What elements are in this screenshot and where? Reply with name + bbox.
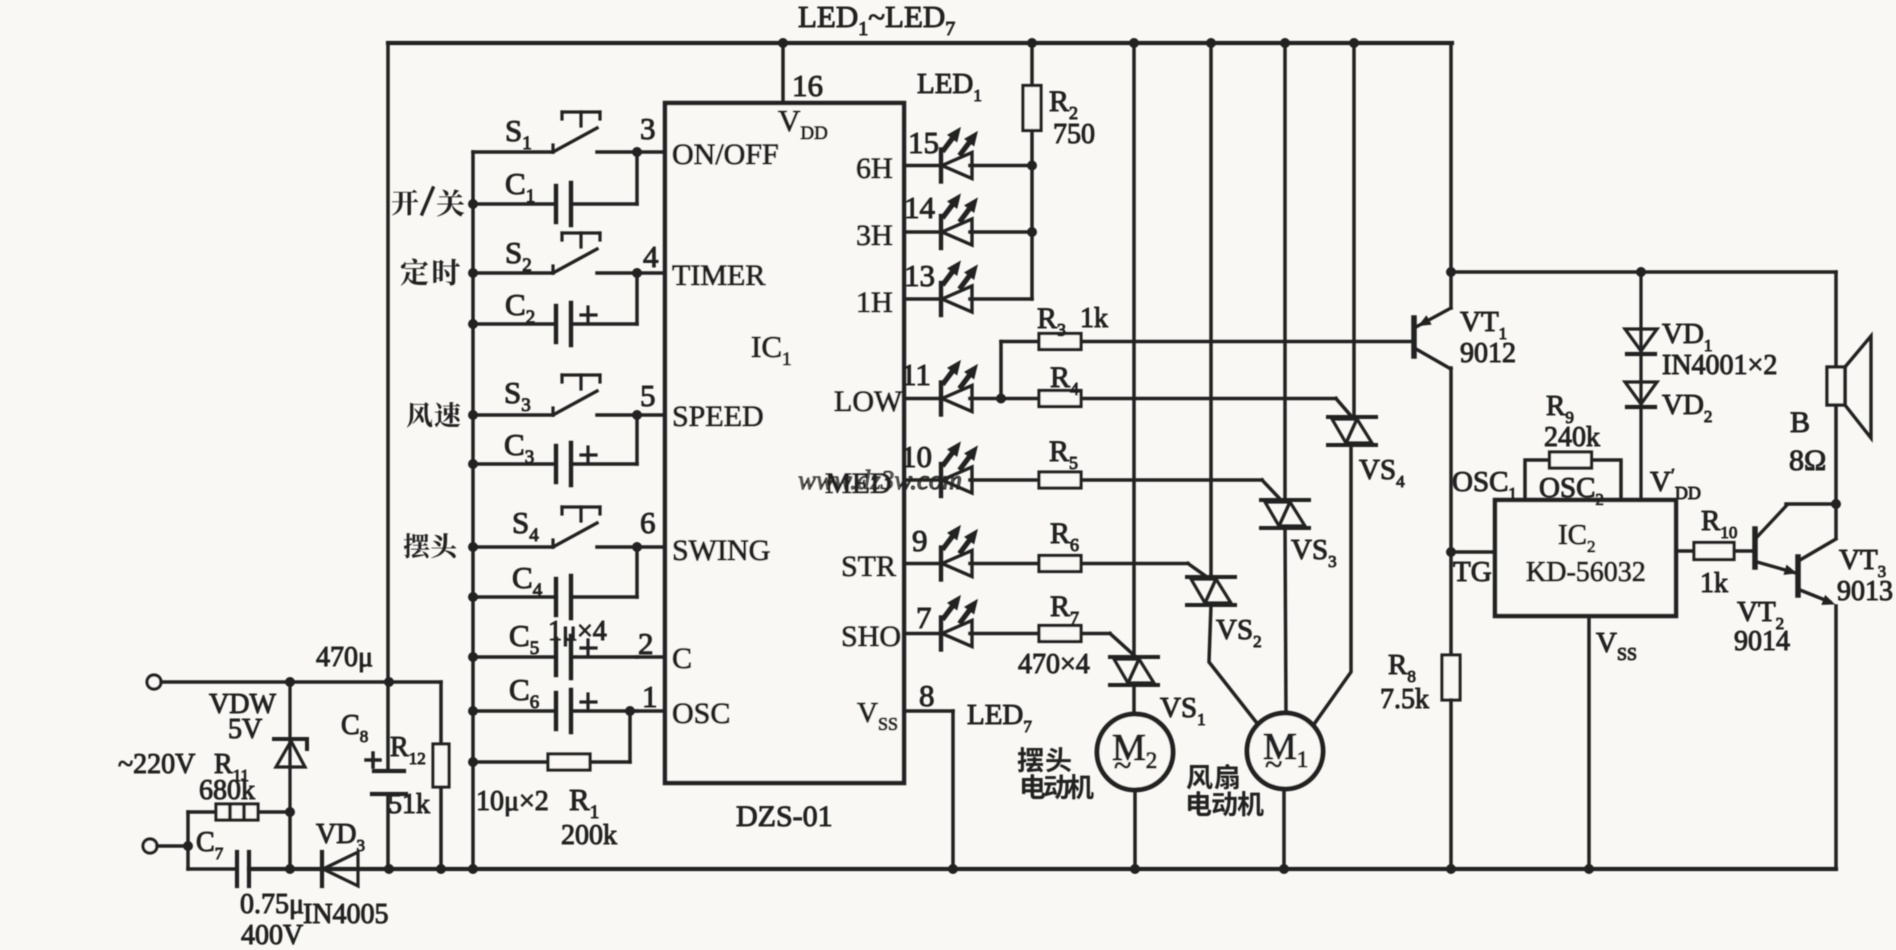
svg-text:SHO: SHO <box>841 620 901 653</box>
switch S2 <box>473 233 637 273</box>
wire VS2 to M1 <box>1209 605 1260 727</box>
LED LED5 (MED) <box>941 442 977 496</box>
svg-text:SWING: SWING <box>672 534 770 567</box>
wire VT3 emitter to ground <box>1834 606 1838 869</box>
svg-text:6H: 6H <box>856 152 893 185</box>
svg-text:8: 8 <box>919 678 935 713</box>
wire pin11 row <box>904 397 941 401</box>
svg-text:400V: 400V <box>241 920 303 950</box>
svg-text:OSC1: OSC1 <box>1452 466 1517 503</box>
wire pin10 row <box>904 478 941 482</box>
wire VDW to ground <box>288 812 292 869</box>
node pin3 <box>632 147 642 157</box>
svg-text:2: 2 <box>638 626 654 661</box>
node TG junction <box>1446 547 1456 557</box>
wire pin6 riser <box>635 547 639 597</box>
svg-text:3: 3 <box>640 111 656 146</box>
wire C8 branch lower <box>386 794 390 869</box>
triac VS3 <box>1261 500 1309 528</box>
node VDW top <box>285 677 295 687</box>
node 6H-R2 <box>1027 161 1037 171</box>
svg-text:~: ~ <box>1114 747 1131 783</box>
node VT1 emitter junction <box>1446 267 1456 277</box>
node M1 ground <box>1279 864 1289 874</box>
wire bottom ground rail <box>249 867 1836 871</box>
wire lower terminal lead <box>157 844 188 848</box>
svg-text:680k: 680k <box>199 775 255 806</box>
resistor R3 <box>1039 334 1081 350</box>
label fengsu <box>407 402 433 427</box>
node C6 bus <box>468 706 478 716</box>
LED LED7 (SHO) <box>941 596 977 650</box>
wire pin9 row <box>904 562 941 566</box>
wire pin2 lead <box>637 655 665 659</box>
node LOW junction <box>996 394 1006 404</box>
label baitou <box>404 533 430 558</box>
label baitou motor <box>1018 747 1044 772</box>
terminal AC input bottom <box>143 839 157 853</box>
node pin5 <box>632 410 642 420</box>
wire VDD pin16 lead <box>781 43 785 103</box>
triac VS2 <box>1187 577 1235 605</box>
svg-text:5: 5 <box>640 378 656 413</box>
wire VS2 column <box>1209 43 1213 577</box>
svg-text:10μ×2: 10μ×2 <box>476 786 549 817</box>
wire VT2 collector <box>1786 502 1836 506</box>
wire IC2 VSS <box>1587 616 1591 869</box>
wire VS1 column <box>1132 43 1136 657</box>
resistor R12 <box>433 744 449 787</box>
svg-text:1: 1 <box>642 679 658 714</box>
wire pin1 lead <box>637 709 665 713</box>
node R12 ground <box>436 864 446 874</box>
wire LOW riser <box>999 342 1003 399</box>
op-amp U1 IC1 DZS-01 body <box>665 103 904 783</box>
wire VS3 to M1 <box>1285 528 1286 715</box>
wire R1 riser <box>628 711 632 762</box>
diode VD2 <box>1625 354 1657 500</box>
node 3H-R2 <box>1027 227 1037 237</box>
node C8 ground <box>384 864 394 874</box>
svg-text:OSC: OSC <box>672 697 730 730</box>
capacitor C7 <box>237 852 249 886</box>
svg-text:470×4: 470×4 <box>1018 649 1090 680</box>
svg-text:C: C <box>672 642 692 675</box>
wire R10 row <box>1676 549 1694 553</box>
svg-text:ON/OFF: ON/OFF <box>672 138 779 171</box>
wire left switch bus <box>471 152 475 869</box>
motor M1 <box>1247 713 1323 789</box>
wire R7 to VS1 gate <box>1110 634 1136 658</box>
svg-text:6: 6 <box>640 505 656 540</box>
svg-text:~: ~ <box>1265 746 1282 782</box>
svg-text:15: 15 <box>908 125 939 160</box>
node VDW ground <box>285 864 295 874</box>
node VS2 top rail <box>1206 38 1216 48</box>
wire R1 row <box>473 760 548 764</box>
resistor R6 <box>1039 556 1081 572</box>
wire VT1 collector column <box>1449 368 1453 655</box>
svg-text:470μ: 470μ <box>316 642 373 673</box>
svg-text:9014: 9014 <box>1734 626 1790 657</box>
svg-text:11: 11 <box>901 357 931 392</box>
wire R8 to ground <box>1449 700 1453 869</box>
wire pin13 row <box>904 297 941 301</box>
svg-text:7: 7 <box>916 600 932 635</box>
capacitor C8 plates <box>366 753 406 794</box>
svg-text:4: 4 <box>643 239 659 274</box>
wire pin14 row <box>904 230 941 234</box>
capacitor C3 <box>473 443 637 485</box>
node pin1 junction <box>625 706 635 716</box>
wire OSC bracket <box>1525 460 1548 500</box>
svg-text:STR: STR <box>841 550 896 583</box>
node kai-guan bus <box>468 199 478 209</box>
svg-text:51k: 51k <box>388 789 430 820</box>
wire R11 left jog <box>186 812 190 869</box>
svg-text:9013: 9013 <box>1837 576 1893 607</box>
wire top VDD rail <box>388 41 1452 45</box>
svg-text:1μ×4: 1μ×4 <box>548 616 607 647</box>
svg-text:9012: 9012 <box>1460 338 1516 369</box>
switch S3 <box>473 375 637 415</box>
label fengshan motor <box>1187 765 1213 790</box>
wire VS1 to M2 <box>1132 685 1136 716</box>
resistor R11 <box>216 804 258 820</box>
switch S4 <box>473 507 637 547</box>
capacitor C2 <box>473 303 637 345</box>
wire pin8 VSS lead <box>904 709 953 713</box>
svg-text:7.5k: 7.5k <box>1380 684 1429 715</box>
resistor R9 <box>1550 452 1592 468</box>
wire pin3 riser <box>635 152 639 204</box>
node VD1 top <box>1636 267 1646 277</box>
capacitor C6 <box>473 690 637 732</box>
transistor VT2 9014 <box>1755 505 1796 574</box>
svg-text:9: 9 <box>912 523 928 558</box>
node pin16 on top rail <box>778 38 788 48</box>
node VS1 top rail <box>1129 38 1139 48</box>
svg-text:KD-56032: KD-56032 <box>1526 557 1646 588</box>
resistor R10 <box>1694 543 1734 560</box>
LED LED4 (LOW) <box>941 361 977 415</box>
triac VS4 <box>1328 417 1376 445</box>
svg-text:~220V: ~220V <box>118 749 195 780</box>
svg-text:3H: 3H <box>856 219 893 252</box>
node C8 top <box>384 677 394 687</box>
svg-text:DZS-01: DZS-01 <box>736 800 833 833</box>
wire VS3 column <box>1283 43 1287 500</box>
node R1 bus <box>468 757 478 767</box>
svg-text:16: 16 <box>792 68 823 103</box>
svg-text:IN4005: IN4005 <box>303 899 389 930</box>
node R2 top <box>1027 38 1037 48</box>
wire M2 to ground <box>1133 790 1137 869</box>
wire VS4 column <box>1352 43 1356 417</box>
wire R4 to VS4 gate <box>1336 399 1352 418</box>
label kai/guan <box>392 190 418 216</box>
LED LED1 (6H) <box>941 128 977 182</box>
wire R3 row <box>1001 340 1039 344</box>
diode VD1 <box>1625 272 1657 354</box>
transistor VT3 9013 <box>1798 539 1836 604</box>
svg-text:IN4001×2: IN4001×2 <box>1662 350 1777 381</box>
svg-text:B: B <box>1790 406 1810 439</box>
capacitor C1 <box>473 183 637 225</box>
svg-text:OSC2: OSC2 <box>1539 472 1604 509</box>
node pin6 <box>632 542 642 552</box>
triac VS1 <box>1110 657 1158 685</box>
node M2 ground <box>1130 864 1140 874</box>
wire R5 to VS3 gate <box>1262 480 1281 500</box>
wire R11 row <box>188 810 216 814</box>
zener diode VDW <box>274 682 307 812</box>
svg-text:LOW: LOW <box>834 385 903 418</box>
resistor R1 <box>548 754 590 770</box>
svg-text:8Ω: 8Ω <box>1789 444 1826 477</box>
diode VD3 <box>322 852 358 886</box>
node lower terminal <box>183 841 193 851</box>
resistor R4 <box>1039 391 1081 407</box>
wire TG lead <box>1451 550 1495 554</box>
wire left frame / C8 branch upper <box>386 43 390 771</box>
switch S1 <box>473 112 637 152</box>
op-amp U2 IC2 KD-56032 body <box>1495 500 1676 616</box>
node speed bus <box>468 410 478 420</box>
terminal AC input top <box>147 675 161 689</box>
svg-text:LED1: LED1 <box>917 68 982 105</box>
svg-text:www.dz3w.com: www.dz3w.com <box>798 465 962 495</box>
node timer bus <box>468 268 478 278</box>
resistor R2 <box>1023 86 1041 131</box>
node VS4 top rail <box>1349 38 1359 48</box>
svg-text:1k: 1k <box>1700 568 1728 599</box>
node R8 ground <box>1446 864 1456 874</box>
node swing bus <box>468 542 478 552</box>
motor M2 <box>1097 714 1173 790</box>
svg-text:13: 13 <box>904 258 935 293</box>
wire VS4 to M1 <box>1312 445 1351 727</box>
wire speaker column <box>1834 272 1838 367</box>
svg-text:LED7: LED7 <box>967 699 1032 736</box>
wire R6 to VS2 gate <box>1188 564 1207 578</box>
svg-text:0.75μ: 0.75μ <box>240 889 304 920</box>
svg-text:240k: 240k <box>1544 422 1600 453</box>
wire 470u row <box>161 680 441 684</box>
capacitor C4 <box>473 576 637 618</box>
svg-text:1k: 1k <box>1080 303 1108 334</box>
node bus-ground <box>468 864 478 874</box>
wire bottom ground rail left of C7 <box>188 867 237 871</box>
speaker B <box>1827 336 1871 438</box>
resistor R8 <box>1442 655 1460 700</box>
wire VT1 column top <box>1449 43 1453 308</box>
wire pin15 row <box>904 164 941 168</box>
node C5 bus <box>468 652 478 662</box>
svg-text:14: 14 <box>904 190 936 225</box>
resistor R7 <box>1039 626 1081 642</box>
svg-text:SPEED: SPEED <box>672 400 764 433</box>
node IC2 VSS ground <box>1584 864 1594 874</box>
wire pin5 riser <box>635 415 639 464</box>
svg-text:TG: TG <box>1453 556 1492 588</box>
wire pin4 riser <box>635 273 639 324</box>
svg-text:1H: 1H <box>856 286 893 319</box>
capacitor C5 <box>473 636 637 678</box>
svg-text:200k: 200k <box>561 820 617 851</box>
node VS3 top rail <box>1280 38 1290 48</box>
node pin4 <box>632 268 642 278</box>
wire R2 column <box>1030 43 1034 87</box>
LED LED6 (STR) <box>941 526 977 580</box>
transistor VT1 9012 <box>1414 308 1451 369</box>
wire M1 to ground <box>1282 789 1286 869</box>
resistor R5 <box>1039 472 1081 488</box>
node VT2 collector <box>1831 499 1841 509</box>
wire R12 branch <box>439 682 443 744</box>
svg-text:5V: 5V <box>228 714 262 745</box>
wire mid rail to speaker <box>1451 270 1836 274</box>
label dingshi <box>401 258 428 285</box>
node R11 right <box>285 807 295 817</box>
node VSS-ground <box>948 864 958 874</box>
wire pin7 row <box>904 632 941 636</box>
LED LED2 (3H) <box>941 194 977 248</box>
LED LED3 (1H) <box>941 261 977 315</box>
svg-text:TIMER: TIMER <box>672 259 765 292</box>
svg-text:750: 750 <box>1053 119 1095 150</box>
